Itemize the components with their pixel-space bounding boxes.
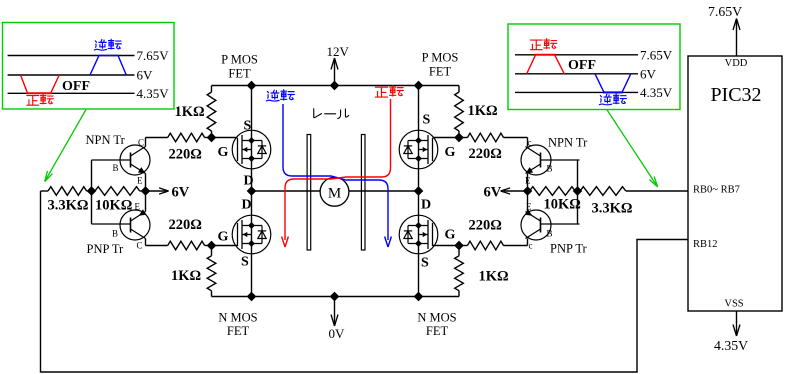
svg-text:N MOS: N MOS — [218, 311, 257, 325]
blue current path 逆転 (reverse) — [266, 90, 391, 247]
svg-text:E: E — [526, 202, 532, 212]
node: left emitter node — [141, 186, 150, 195]
R5 value label — [169, 217, 202, 233]
R4 value label — [95, 198, 132, 214]
wire left base feed vertical — [91, 160, 93, 224]
node: bottom rail / 0V — [330, 292, 339, 301]
svg-text:12V: 12V — [327, 44, 350, 59]
resistor R10 3.3KΩ (right) — [578, 187, 689, 196]
left box level line 7.65V — [8, 48, 170, 63]
svg-text:1KΩ: 1KΩ — [171, 268, 201, 284]
caption P MOS FET left — [221, 53, 258, 81]
right box level line 6V — [515, 66, 657, 81]
U3 label S — [423, 113, 431, 128]
right box red forward pulse + label 正転 — [527, 39, 565, 74]
N-MOSFET U2 (left low side) — [232, 215, 271, 254]
svg-text:6V: 6V — [640, 66, 657, 81]
right box level line 4.35V — [515, 85, 673, 100]
node: R5/R6/left N gate — [207, 241, 216, 250]
U4 label G — [445, 228, 456, 243]
12V supply arrow — [327, 44, 350, 86]
top supply rail wire — [212, 85, 460, 87]
transistor Q3 NPN (right) — [521, 138, 580, 192]
resistor R3 3.3KΩ (left base) — [41, 187, 92, 196]
svg-text:E: E — [135, 202, 141, 212]
svg-text:G: G — [218, 145, 229, 160]
svg-text:B: B — [547, 229, 553, 239]
green pointer arrow right — [607, 110, 658, 187]
resistor R1 1KΩ (left top) — [207, 86, 216, 138]
label レール (rail) — [314, 109, 349, 119]
wire right base feed vertical — [577, 160, 579, 224]
svg-text:B: B — [547, 164, 553, 174]
VDD supply arrow 7.65V — [708, 4, 742, 56]
svg-text:RB0~ RB7: RB0~ RB7 — [693, 185, 740, 196]
node: bottom rail / right NMOS S — [414, 292, 423, 301]
U1 label D — [244, 174, 254, 189]
pin label VDD — [725, 58, 748, 69]
R6 value label — [171, 268, 201, 284]
N-MOSFET U4 (right low side) — [399, 215, 438, 254]
U2 label G — [218, 230, 229, 245]
right box blue reverse pulse + label 逆転 — [595, 74, 631, 105]
svg-text:PNP Tr: PNP Tr — [550, 242, 588, 256]
right box level line 7.65V — [515, 47, 673, 62]
svg-text:D: D — [244, 174, 254, 189]
svg-text:FET: FET — [429, 65, 452, 79]
R8 value label — [469, 146, 502, 162]
svg-text:10KΩ: 10KΩ — [95, 198, 132, 214]
svg-text:4.35V: 4.35V — [137, 86, 170, 101]
svg-text:PNP Tr: PNP Tr — [87, 242, 125, 256]
wire right MOSFET column S-D — [418, 86, 420, 297]
node: right drain junction — [414, 186, 423, 195]
svg-text:FET: FET — [228, 67, 251, 81]
transistor Q2 PNP (left) — [92, 191, 151, 246]
node: R11/R12/right N gate — [454, 241, 463, 250]
svg-text:G: G — [445, 145, 456, 160]
svg-text:220Ω: 220Ω — [169, 147, 202, 163]
svg-text:FET: FET — [227, 324, 250, 338]
svg-text:4.35V: 4.35V — [640, 85, 673, 100]
Q1 pin label C — [138, 138, 144, 148]
pin label VSS — [724, 299, 743, 310]
node: top rail / right PMOS S — [414, 81, 423, 90]
Q4 caption PNP Tr — [550, 242, 588, 256]
R9 value label — [544, 197, 581, 213]
svg-text:PIC32: PIC32 — [710, 84, 761, 106]
svg-text:1KΩ: 1KΩ — [175, 104, 205, 120]
svg-text:7.65V: 7.65V — [708, 4, 742, 19]
svg-text:M: M — [328, 186, 341, 202]
svg-text:G: G — [218, 230, 229, 245]
R3 value label — [48, 198, 89, 214]
R2 value label — [169, 147, 202, 163]
svg-text:D: D — [242, 198, 252, 213]
svg-text:RB12: RB12 — [693, 239, 718, 250]
caption P MOS FET right — [422, 51, 459, 79]
svg-text:1KΩ: 1KΩ — [468, 103, 498, 119]
R12 value label — [479, 269, 509, 285]
left box level line 6V — [8, 68, 153, 83]
svg-text:FET: FET — [426, 324, 449, 338]
svg-text:C: C — [138, 138, 144, 148]
resistor R5 220Ω (left bottom gate) — [146, 241, 212, 250]
svg-text:3.3KΩ: 3.3KΩ — [48, 198, 89, 214]
Q1 caption NPN Tr — [86, 133, 126, 147]
resistor R6 1KΩ (left bottom) — [207, 246, 216, 297]
0V ground arrow — [329, 297, 346, 342]
wire left MOSFET column S-D — [251, 86, 253, 297]
Q3 pin label E — [525, 176, 531, 186]
svg-text:NPN Tr: NPN Tr — [86, 133, 126, 147]
R11 value label — [469, 218, 502, 234]
red current path 正転 (forward) — [282, 86, 404, 247]
svg-text:3.3KΩ: 3.3KΩ — [592, 201, 633, 217]
svg-text:VSS: VSS — [724, 299, 743, 310]
node: top rail / left PMOS S — [247, 81, 256, 90]
svg-text:E: E — [137, 176, 143, 186]
left box blue reverse pulse + label 逆転 — [90, 39, 126, 75]
VSS supply arrow 4.35V — [714, 311, 748, 353]
wire motor bridge — [252, 190, 419, 192]
svg-text:7.65V: 7.65V — [137, 48, 170, 63]
node: left base node — [87, 186, 96, 195]
wire right P gate — [433, 137, 460, 139]
svg-text:S: S — [421, 256, 429, 271]
resistor R8 220Ω (right top gate) — [459, 133, 528, 142]
node: bottom rail / left NMOS S — [247, 292, 256, 301]
U2 label S — [241, 255, 249, 270]
wire left P gate — [212, 137, 238, 139]
svg-text:NPN Tr: NPN Tr — [548, 136, 588, 150]
svg-text:c: c — [528, 138, 532, 148]
svg-text:E: E — [525, 176, 531, 186]
svg-text:P MOS: P MOS — [422, 51, 459, 65]
Q4 pin label B — [547, 229, 553, 239]
R1 value label — [175, 104, 205, 120]
node: top rail / 12V — [330, 81, 339, 90]
wire left N gate — [212, 245, 238, 247]
waveform note box left (border) — [3, 23, 175, 110]
svg-text:B: B — [113, 163, 119, 173]
svg-text:S: S — [241, 255, 249, 270]
svg-text:6V: 6V — [137, 68, 154, 83]
6V reference arrow right — [484, 185, 528, 201]
svg-text:7.65V: 7.65V — [640, 47, 673, 62]
Q3 caption NPN Tr — [548, 136, 588, 150]
node: R1/R2/left P gate — [207, 133, 216, 142]
svg-text:6V: 6V — [172, 185, 190, 201]
svg-text:OFF: OFF — [568, 58, 596, 73]
svg-text:0V: 0V — [329, 326, 346, 341]
PIC32 U5 box — [688, 56, 782, 311]
svg-text:S: S — [244, 119, 252, 134]
U3 label D — [421, 198, 431, 213]
Q3 pin label B — [547, 164, 553, 174]
resistor R11 220Ω (right bottom gate) — [459, 241, 528, 250]
Q1 pin label B — [113, 163, 119, 173]
linear rail left bar — [307, 135, 311, 251]
U1 label S — [244, 119, 252, 134]
node: R7/R8/right P gate — [454, 133, 463, 142]
green pointer arrow left — [45, 110, 86, 182]
caption N MOS FET left — [218, 311, 257, 339]
P-MOSFET U3 (right high side) — [399, 130, 438, 169]
svg-text:220Ω: 220Ω — [169, 217, 202, 233]
U2 label D — [242, 198, 252, 213]
waveform note box right (border) — [508, 24, 680, 110]
node: right emitter node — [523, 186, 532, 195]
svg-text:VDD: VDD — [725, 58, 748, 69]
Q4 pin label C — [529, 241, 533, 251]
Q2 pin label B — [112, 229, 118, 239]
svg-text:S: S — [423, 113, 431, 128]
right box OFF label — [568, 58, 596, 73]
U4 label S — [421, 256, 429, 271]
svg-text:C: C — [137, 241, 143, 251]
Q2 pin label E — [135, 202, 141, 212]
Q3 pin label C — [528, 138, 532, 148]
pin label RB12 — [693, 239, 718, 250]
R7 value label — [468, 103, 498, 119]
Q1 pin label E — [137, 176, 143, 186]
svg-text:D: D — [421, 198, 431, 213]
svg-text:10KΩ: 10KΩ — [544, 197, 581, 213]
svg-text:N MOS: N MOS — [417, 311, 456, 325]
resistor R12 1KΩ (right bottom) — [455, 246, 464, 297]
bottom ground rail wire — [212, 296, 460, 298]
Q2 pin label C — [137, 241, 143, 251]
linear rail right bar — [361, 135, 365, 251]
wire RB12 feedback loop — [41, 191, 689, 372]
transistor Q4 PNP (right) — [521, 191, 580, 246]
wire right N gate — [433, 245, 460, 247]
svg-text:OFF: OFF — [62, 79, 90, 94]
left box OFF label — [62, 79, 90, 94]
motor M1 — [320, 177, 349, 206]
svg-text:4.35V: 4.35V — [714, 338, 748, 353]
P-MOSFET U1 (left high side) — [232, 130, 271, 169]
left box red forward pulse + label 正転 — [21, 75, 60, 105]
Q2 caption PNP Tr — [87, 242, 125, 256]
R10 value label — [592, 201, 633, 217]
svg-text:c: c — [529, 241, 533, 251]
PIC32 label — [710, 84, 761, 106]
svg-text:G: G — [445, 228, 456, 243]
svg-text:B: B — [112, 229, 118, 239]
svg-text:6V: 6V — [484, 185, 502, 201]
node: right base node — [573, 186, 582, 195]
svg-text:220Ω: 220Ω — [469, 146, 502, 162]
U1 label G — [218, 145, 229, 160]
resistor R7 1KΩ (right top) — [455, 86, 464, 138]
resistor R9 10KΩ (right) — [528, 187, 578, 196]
resistor R4 10KΩ (left) — [92, 187, 146, 196]
svg-text:P MOS: P MOS — [221, 53, 258, 67]
Q4 pin label E — [526, 202, 532, 212]
pin label RB0~ RB7 — [693, 185, 740, 196]
svg-text:220Ω: 220Ω — [469, 218, 502, 234]
left box level line 4.35V — [8, 86, 170, 101]
svg-text:1KΩ: 1KΩ — [479, 269, 509, 285]
caption N MOS FET right — [417, 311, 456, 339]
resistor R2 220Ω (left top gate) — [146, 133, 212, 142]
6V reference arrow left — [146, 185, 190, 201]
node: left drain junction — [247, 186, 256, 195]
U3 label G — [445, 145, 456, 160]
transistor Q1 NPN (left) — [92, 138, 151, 192]
